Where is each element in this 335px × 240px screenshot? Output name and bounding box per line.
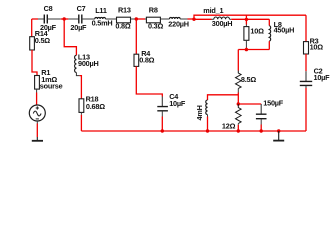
svg-text:10Ω: 10Ω (310, 43, 324, 52)
node junction C4 on bus (161, 129, 164, 132)
svg-text:10µF: 10µF (169, 99, 186, 108)
resistor R14 (30, 19, 51, 50)
inductor L8 (269, 19, 294, 41)
node junction above 10 ohm (245, 18, 248, 21)
wire 10 ohm bottom lead (245, 40, 247, 47)
wire C2 to bus corner (305, 86, 307, 88)
resistor 10 ohm (parallel with L8) (244, 26, 264, 40)
svg-text:8.5Ω: 8.5Ω (241, 75, 256, 84)
wire R14 to R1 jog (32, 50, 37, 76)
wire C7 to L11 (82, 18, 95, 20)
svg-text:220µH: 220µH (168, 20, 189, 29)
svg-text:20µF: 20µF (70, 23, 87, 32)
svg-text:10Ω: 10Ω (250, 26, 264, 35)
svg-text:20µF: 20µF (40, 23, 57, 32)
node junction below 10 ohm (245, 48, 248, 51)
svg-text:L11: L11 (95, 6, 107, 15)
resistor R13 (115, 5, 130, 30)
node junction after C8 (62, 17, 65, 20)
wire block bottom bar (238, 49, 269, 51)
wire L13 branch from C8 junction (64, 19, 76, 55)
resistor R18 (79, 95, 105, 113)
wire R8 to 220uH (160, 18, 169, 20)
wire 220uH to node mid_1 (180, 18, 187, 20)
wire center node to 4mH (208, 95, 239, 100)
inductor 300uH (212, 17, 233, 28)
svg-text:4mH: 4mH (195, 105, 204, 120)
wire right branch down to R3 (305, 15, 307, 41)
wire left branch down from rail to R14 (31, 19, 33, 37)
resistor R1 (35, 68, 58, 89)
svg-text:0.5Ω: 0.5Ω (35, 36, 50, 45)
AC voltage source V1 (29, 105, 45, 121)
wire mid_1 to 300uH (194, 18, 212, 20)
wire 12 ohm to bus (237, 124, 239, 125)
wire 150uF to bus (260, 119, 262, 125)
svg-text:0.8Ω: 0.8Ω (115, 21, 130, 30)
wire L13 to R18 jog (76, 73, 79, 76)
node junction R13/R8/R4 (135, 17, 138, 20)
resistor 12 ohm (222, 104, 241, 131)
wire L11 to R13 (105, 18, 116, 20)
node junction ground on bus (277, 129, 280, 132)
capacitor C7 (70, 4, 87, 32)
svg-text:R13: R13 (118, 5, 131, 14)
node junction center (237, 102, 240, 105)
wire source to ground (36, 121, 38, 124)
ground (right) (273, 131, 284, 141)
wire C8 to junction to C7 (47, 18, 61, 20)
wire top-left corner rail (32, 18, 38, 20)
resistor R4 (134, 49, 155, 67)
wire 4mH to bus (207, 115, 209, 117)
node junction 150uF on bus (260, 129, 263, 132)
svg-text:0.5mH: 0.5mH (92, 19, 113, 28)
svg-text:mid_1: mid_1 (203, 6, 223, 15)
inductor L13 (75, 53, 99, 73)
wire R3 to C2 (305, 54, 307, 71)
node junction 12 ohm on bus (237, 129, 240, 132)
wire R18 to bus corner (80, 112, 82, 114)
capacitor C8 (40, 4, 57, 32)
svg-text:150µF: 150µF (263, 98, 283, 107)
svg-text:sourse: sourse (40, 81, 63, 90)
wire center node to 150uF (238, 103, 261, 105)
inductor 220uH (168, 17, 189, 28)
svg-text:R8: R8 (149, 5, 158, 14)
svg-text:900µH: 900µH (78, 59, 99, 68)
resistor R8 (146, 5, 163, 30)
inductor 4mH (195, 100, 208, 121)
wire L8 bottom lead (268, 41, 270, 49)
wire R4 branch from junction (135, 19, 137, 54)
svg-text:12Ω: 12Ω (222, 122, 236, 131)
wire 300uH to parallel block (230, 18, 232, 20)
svg-text:10µF: 10µF (314, 73, 331, 82)
wire block to 8.5 ohm jog (237, 50, 239, 71)
resistor R3 (304, 37, 324, 54)
wire 8.5 ohm to center node (237, 89, 239, 93)
node junction 4mH on bus (206, 129, 209, 132)
svg-text:0.8Ω: 0.8Ω (139, 56, 154, 65)
inductor L11 (92, 6, 113, 27)
node mid_1 (192, 18, 195, 21)
wire R4 to C4 jog (136, 66, 162, 96)
resistor 8.5 ohm (236, 71, 257, 89)
wire bottom bus (81, 130, 306, 132)
wire mid_1 upper rail to right (194, 15, 306, 19)
svg-text:450µH: 450µH (274, 26, 295, 35)
ground (left) (32, 140, 43, 142)
capacitor C4 (157, 92, 186, 111)
svg-text:C7: C7 (77, 4, 86, 13)
wire R1 to source (36, 89, 38, 92)
wire R13 to R8 with junction (131, 18, 135, 20)
capacitor 150uF (256, 98, 284, 118)
svg-text:300µH: 300µH (212, 19, 233, 28)
wire junction riser rail to block (245, 15, 247, 24)
wire C4 to bus (161, 111, 163, 116)
svg-text:0.68Ω: 0.68Ω (86, 102, 105, 111)
svg-text:C8: C8 (44, 4, 53, 13)
capacitor C2 (300, 66, 330, 85)
svg-text:0.3Ω: 0.3Ω (148, 21, 163, 30)
